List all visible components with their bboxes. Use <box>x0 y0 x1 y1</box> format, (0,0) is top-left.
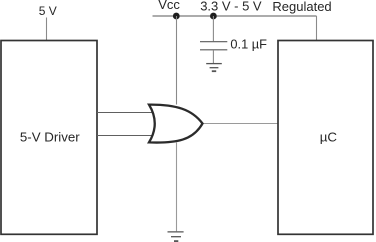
ground: capacitor ground symbol <box>206 64 222 72</box>
capacitor C1 top plate <box>200 41 227 43</box>
wire: Vcc down to gate top pin <box>176 16 178 105</box>
capacitor C1 bottom plate <box>200 49 227 51</box>
junction dot: Vcc node <box>173 13 180 20</box>
svg-text:µC: µC <box>320 129 338 144</box>
svg-text:5-V Driver: 5-V Driver <box>20 130 80 145</box>
svg-text:3.3 V - 5 V: 3.3 V - 5 V <box>200 0 262 14</box>
svg-text:Regulated: Regulated <box>272 0 331 14</box>
wire: gate bottom pin down to ground <box>176 143 178 232</box>
wire: gate output to µC <box>201 123 278 125</box>
svg-text:0.1 µF: 0.1 µF <box>230 36 267 51</box>
wire: driver output 1 to gate input A <box>97 112 155 114</box>
ground: gate ground symbol <box>168 232 184 241</box>
wire: Vcc rail (horizontal) <box>153 15 317 17</box>
or-gate U1 <box>149 105 203 143</box>
wire: rail down to capacitor top plate <box>212 16 214 41</box>
block: 5-V Driver <box>1 41 97 235</box>
svg-text:Vcc: Vcc <box>158 0 180 12</box>
wire: capacitor bottom plate to ground <box>212 50 214 63</box>
svg-text:5 V: 5 V <box>39 4 57 18</box>
block: µC <box>278 41 373 235</box>
wire: driver output 2 to gate input B <box>97 135 155 137</box>
wire: rail corner down to µC top pin <box>316 16 318 41</box>
junction dot: capacitor branch node <box>210 13 217 20</box>
wire: 5 V label to driver box <box>46 18 48 41</box>
